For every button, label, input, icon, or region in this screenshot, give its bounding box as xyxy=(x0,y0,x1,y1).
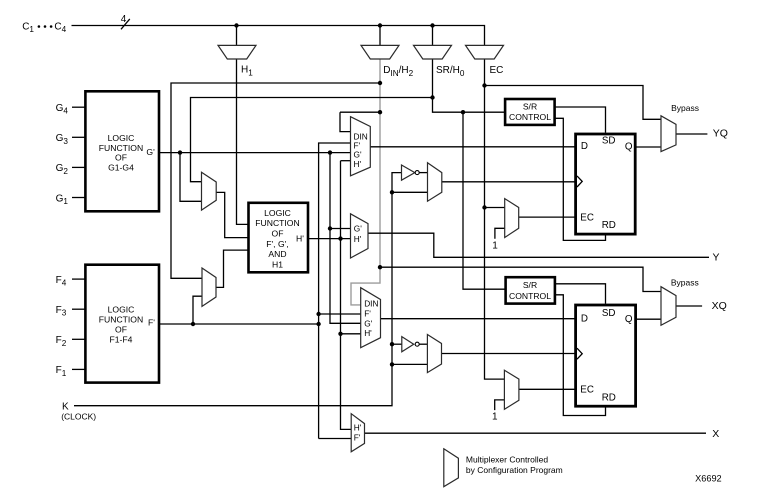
svg-text:EC: EC xyxy=(580,212,594,223)
svg-text:H': H' xyxy=(296,233,304,243)
svg-text:D: D xyxy=(581,314,588,325)
svg-text:1: 1 xyxy=(492,240,498,251)
svg-text:CONTROL: CONTROL xyxy=(509,112,551,122)
svg-text:G': G' xyxy=(364,318,372,328)
svg-text:X: X xyxy=(712,428,719,440)
svg-text:Q: Q xyxy=(625,141,633,152)
svg-text:Y: Y xyxy=(713,252,720,264)
svg-text:H': H' xyxy=(354,159,362,169)
svg-text:D: D xyxy=(581,141,588,152)
svg-text:RD: RD xyxy=(602,393,616,404)
svg-text:S/R: S/R xyxy=(523,101,537,111)
svg-text:G': G' xyxy=(354,223,362,233)
svg-text:Bypass: Bypass xyxy=(671,103,699,113)
svg-text:EC: EC xyxy=(580,384,594,395)
svg-text:Bypass: Bypass xyxy=(671,277,699,287)
svg-text:F': F' xyxy=(148,318,155,328)
svg-text:Q: Q xyxy=(625,314,633,325)
svg-text:AND: AND xyxy=(268,249,286,259)
svg-text:XQ: XQ xyxy=(712,300,727,312)
svg-text:OF: OF xyxy=(272,229,284,239)
svg-text:YQ: YQ xyxy=(713,128,728,140)
svg-text:H': H' xyxy=(354,234,362,244)
svg-text:H': H' xyxy=(354,423,362,433)
svg-text:SD: SD xyxy=(602,308,616,319)
svg-text:RD: RD xyxy=(602,220,616,231)
svg-text:G1-G4: G1-G4 xyxy=(108,163,134,173)
svg-text:H1: H1 xyxy=(272,260,283,270)
svg-text:F', G',: F', G', xyxy=(266,239,288,249)
svg-text:F': F' xyxy=(354,432,361,442)
svg-text:H': H' xyxy=(364,328,372,338)
svg-text:FUNCTION: FUNCTION xyxy=(99,143,143,153)
svg-text:1: 1 xyxy=(492,412,498,423)
svg-text:F': F' xyxy=(364,308,371,318)
svg-text:F1-F4: F1-F4 xyxy=(110,334,133,344)
svg-text:FUNCTION: FUNCTION xyxy=(99,314,143,324)
svg-text:EC: EC xyxy=(490,65,504,76)
svg-text:SD: SD xyxy=(602,135,616,146)
svg-text:OF: OF xyxy=(115,324,127,334)
svg-text:DIN: DIN xyxy=(364,299,378,309)
svg-text:LOGIC: LOGIC xyxy=(108,133,135,143)
svg-text:S/R: S/R xyxy=(523,280,537,290)
svg-text:OF: OF xyxy=(115,153,127,163)
svg-text:by Configuration Program: by Configuration Program xyxy=(466,465,563,475)
svg-text:Multiplexer Controlled: Multiplexer Controlled xyxy=(466,455,548,465)
svg-text:(CLOCK): (CLOCK) xyxy=(61,411,96,421)
svg-text:LOGIC: LOGIC xyxy=(108,304,135,314)
svg-text:4: 4 xyxy=(121,14,127,25)
svg-text:LOGIC: LOGIC xyxy=(264,208,291,218)
svg-text:FUNCTION: FUNCTION xyxy=(255,218,299,228)
svg-text:G': G' xyxy=(146,147,155,157)
svg-text:CONTROL: CONTROL xyxy=(509,291,551,301)
svg-text:X6692: X6692 xyxy=(695,474,722,484)
